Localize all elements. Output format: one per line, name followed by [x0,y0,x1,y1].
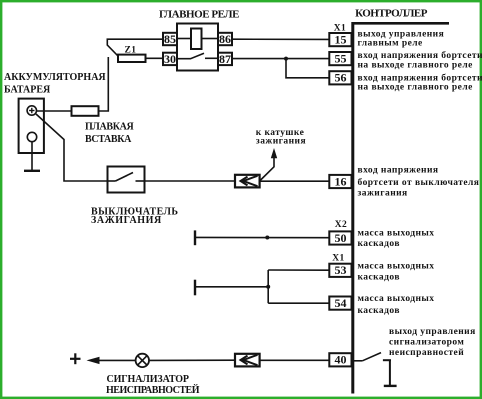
wire relay 87 to controller pin 55 [232,58,329,60]
pin 40 description label [389,327,476,358]
ground (battery) [24,142,40,171]
svg-text:ГЛАВНОЕ РЕЛЕ: ГЛАВНОЕ РЕЛЕ [159,8,239,20]
ignition switch label [91,206,178,226]
controller pin 15 [329,33,351,47]
lamp malfunction indicator [136,354,149,367]
battery label [4,72,106,96]
controller pin 54 [329,296,351,310]
controller outline [352,22,450,394]
svg-text:БАТАРЕЯ: БАТАРЕЯ [4,85,51,96]
svg-text:16: 16 [335,174,347,188]
wire connector 2 to pin 40 [260,359,329,361]
svg-text:зажигания: зажигания [256,137,306,147]
wire ground to pin 50 [195,236,329,238]
wire branch to controller pin 56 [286,59,329,78]
wire fuse to Z1 junction [99,57,109,111]
pin 53 description label [358,261,435,282]
wire arrow to lamp [99,359,135,361]
plus supply terminal [70,353,81,364]
ignition switch S1 [108,167,145,193]
connector 2 (lamp circuit) [235,354,260,367]
svg-text:Z1: Z1 [125,46,137,56]
controller pin 40 [329,353,351,367]
svg-text:ЗАЖИГАНИЯ: ЗАЖИГАНИЯ [91,215,162,226]
svg-text:вход напряжения: вход напряжения [358,166,439,176]
ground (inside controller) [383,360,397,386]
ground terminal (pins 53/54 circuit) [194,280,196,296]
svg-text:86: 86 [219,32,231,46]
controller pin 56 [329,71,351,85]
wire Z1 to relay pin 30 [146,57,164,59]
fusible element Z1 [118,46,146,62]
ignition coil label [256,128,306,147]
svg-text:15: 15 [335,33,347,47]
svg-text:масса выходных: масса выходных [358,261,435,271]
svg-text:главным реле: главным реле [358,38,423,48]
controller pin 53 [329,263,351,277]
junction dot on branch [266,285,270,289]
pin 16 description label [358,166,480,199]
svg-text:X2: X2 [335,220,348,230]
wire ground to branch junction [195,286,268,288]
wire switch to connector [145,180,236,182]
pin 50 description label [358,228,435,249]
relay pin 85 [163,32,177,46]
fuse fusible link [72,106,99,116]
wire relay 86 to controller pin 15 [232,38,329,40]
wire battery plus to ignition switch [36,114,108,181]
svg-text:масса выходных: масса выходных [358,294,435,304]
svg-text:50: 50 [335,231,347,245]
svg-text:неисправностей: неисправностей [389,347,464,358]
lamp label [106,374,200,396]
pin 54 description label [358,294,435,316]
relay pin 86 [218,32,232,46]
wire branch to pin 54 [268,302,329,304]
junction dot on 87-55 wire [284,57,288,61]
svg-text:на выходе главного реле: на выходе главного реле [358,60,473,70]
controller pin 50 [329,231,351,245]
svg-text:КОНТРОЛЛЕР: КОНТРОЛЛЕР [355,8,428,20]
svg-text:СИГНАЛИЗАТОР: СИГНАЛИЗАТОР [107,374,189,385]
wire lamp to connector 2 [149,359,235,361]
wire branch to pin 53 [268,269,329,271]
svg-text:выход управления: выход управления [389,327,476,337]
svg-text:масса выходных: масса выходных [358,228,435,238]
wire branch vertical [267,270,269,303]
svg-text:на выходе главного реле: на выходе главного реле [358,83,473,93]
svg-text:85: 85 [164,32,176,46]
wire branch to ignition coil [260,156,274,181]
relay K1 main relay [177,24,218,71]
svg-text:30: 30 [164,52,176,66]
svg-text:НЕИСПРАВНОСТЕЙ: НЕИСПРАВНОСТЕЙ [106,384,200,396]
ground terminal (pin 50 circuit) [194,230,196,245]
wire battery plus to fuse [37,110,72,112]
switch inside controller (pin 40 driver) [354,353,382,361]
svg-text:сигнализатором: сигнализатором [389,337,464,347]
svg-text:54: 54 [335,296,347,310]
svg-text:87: 87 [219,52,231,66]
svg-text:АККУМУЛЯТОРНАЯ: АККУМУЛЯТОРНАЯ [4,72,106,83]
svg-text:каскадов: каскадов [358,306,400,316]
pin 15 description label [358,29,445,48]
relay pin 87 [218,52,232,66]
svg-text:ВСТАВКА: ВСТАВКА [85,134,132,145]
svg-text:53: 53 [335,263,347,277]
relay pin 30 [163,52,177,66]
svg-text:бортсети от выключателя: бортсети от выключателя [358,177,480,188]
junction dot on pin 50 wire [265,236,269,240]
wire pin 85 to Z1 junction [107,39,163,56]
pin 56 description label [358,73,482,93]
svg-text:55: 55 [335,52,347,66]
fuse label [85,121,134,145]
svg-text:зажигания: зажигания [358,188,408,198]
arrow to plus supply [87,357,100,364]
arrow to ignition coil [271,148,277,158]
wire connector to controller pin 16 [260,180,329,182]
svg-text:каскадов: каскадов [358,273,400,283]
battery GB1 [19,99,44,153]
svg-text:X1: X1 [332,253,345,263]
svg-text:каскадов: каскадов [358,239,400,249]
connector (ignition feed) [235,175,260,188]
svg-text:40: 40 [335,353,347,367]
svg-text:56: 56 [335,71,347,85]
controller pin 55 [329,52,351,66]
svg-text:ПЛАВКАЯ: ПЛАВКАЯ [85,121,134,132]
pin 55 description label [358,50,482,70]
controller pin 16 [329,174,351,188]
